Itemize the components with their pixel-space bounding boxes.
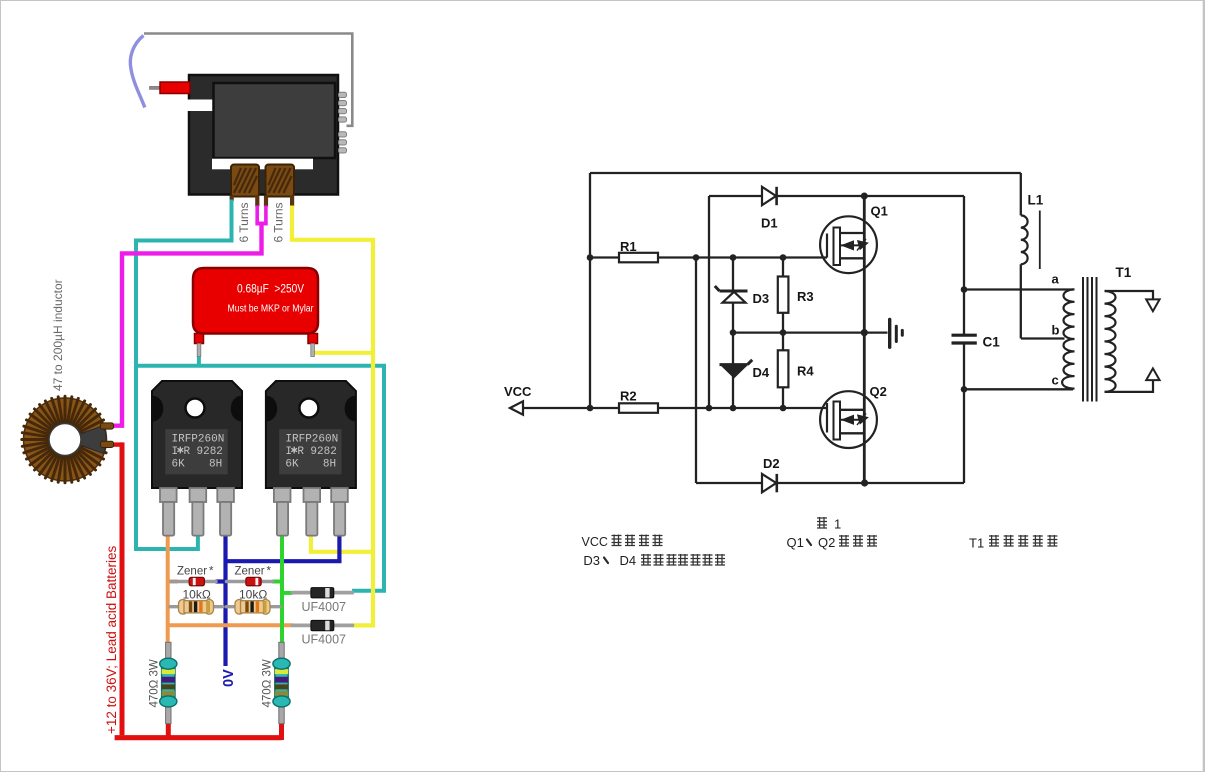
label c xyxy=(1052,373,1059,388)
resistor R3 xyxy=(778,277,789,313)
svg-text:Q1: Q1 xyxy=(871,204,888,219)
svg-text:Zener*: Zener* xyxy=(177,566,214,578)
wire teal net (coil1 - cap - Q1 drain - UF4007) xyxy=(136,200,384,591)
primary coil winding 1 (6 turns) xyxy=(230,165,260,207)
svg-text:VCC: VCC xyxy=(582,535,608,549)
svg-text:Q2: Q2 xyxy=(818,535,835,550)
diode D1 xyxy=(762,187,777,205)
label R4 xyxy=(797,364,814,379)
svg-text:L1: L1 xyxy=(1028,193,1044,208)
output arrow bottom xyxy=(1146,368,1159,380)
MOSFET symbol Q1 xyxy=(820,216,877,273)
svg-text:Q2: Q2 xyxy=(870,384,887,399)
label 10kOhm (right) xyxy=(239,588,267,602)
svg-text:8H: 8H xyxy=(209,459,222,471)
svg-text:IRFP260N: IRFP260N xyxy=(172,434,225,446)
label R2 xyxy=(620,389,637,404)
label 470R 3W (left) xyxy=(149,659,161,707)
resistor 10k (left) xyxy=(170,600,223,615)
svg-text:470Ω 3W: 470Ω 3W xyxy=(262,659,274,707)
label UF4007 (upper) xyxy=(302,600,347,614)
toroid inductor xyxy=(22,396,114,482)
svg-text:6K: 6K xyxy=(285,459,299,471)
svg-text:I: I xyxy=(285,446,292,458)
svg-text:R2: R2 xyxy=(620,389,637,404)
caption D3 D4 gate protection zeners xyxy=(583,553,725,568)
label Zener * (right) xyxy=(235,566,272,578)
label Q2 xyxy=(870,384,887,399)
svg-text:c: c xyxy=(1052,373,1059,388)
label 6 Turns (left) xyxy=(237,202,251,242)
output arrow top xyxy=(1146,299,1159,311)
flyback transformer core xyxy=(162,75,338,381)
caption figure 1 xyxy=(817,517,841,532)
wire green net (Q2 gate) xyxy=(272,534,293,643)
svg-text:D4: D4 xyxy=(620,553,637,568)
wire yellow net (coil2 - cap - Q2 drain - UF4007) xyxy=(292,206,373,626)
svg-text:R: R xyxy=(184,446,191,458)
MOSFET symbol Q2 xyxy=(820,391,877,448)
svg-text:47 to 200µH inductor: 47 to 200µH inductor xyxy=(51,279,65,391)
svg-text:1: 1 xyxy=(834,517,841,532)
svg-text:R3: R3 xyxy=(797,289,814,304)
label D4 xyxy=(753,365,770,380)
svg-text:0.68µF >250V: 0.68µF >250V xyxy=(237,282,305,296)
svg-text:10kΩ: 10kΩ xyxy=(183,588,211,602)
svg-text:T1: T1 xyxy=(969,536,984,551)
svg-text:6 Turns: 6 Turns xyxy=(272,202,286,242)
flyback red HV lead xyxy=(150,82,191,94)
label 470R 3W (right) xyxy=(262,659,274,707)
label UF4007 (lower) xyxy=(302,633,347,647)
svg-text:UF4007: UF4007 xyxy=(302,633,347,647)
svg-text:Q1: Q1 xyxy=(787,535,804,550)
schematic wires xyxy=(522,173,1073,483)
drain-source verticals Q1 Q2 xyxy=(863,196,866,483)
label C1 xyxy=(983,335,1001,350)
svg-text:I: I xyxy=(172,446,179,458)
primary coil winding 2 (6 turns) xyxy=(264,165,294,207)
resistor R2 xyxy=(619,403,658,413)
zener D4 xyxy=(720,360,753,378)
label VCC xyxy=(504,384,532,399)
svg-text:R4: R4 xyxy=(797,364,814,379)
label b xyxy=(1052,323,1060,338)
capacitor C1 xyxy=(952,335,977,343)
label 6 Turns (right) xyxy=(272,202,286,242)
diode UF4007 (upper) xyxy=(293,588,353,598)
caption T1 isolation transformer xyxy=(969,535,1057,551)
svg-text:R1: R1 xyxy=(620,239,637,254)
svg-text:UF4007: UF4007 xyxy=(302,600,347,614)
label 0V xyxy=(221,669,237,687)
capacitor 0.68uF MKP xyxy=(193,268,318,357)
svg-text:T1: T1 xyxy=(1116,265,1132,280)
svg-text:0V: 0V xyxy=(221,669,237,687)
VCC arrow xyxy=(510,401,523,414)
label R3 xyxy=(797,289,814,304)
label Zener * (left) xyxy=(177,566,214,578)
wire purple HV return of flyback xyxy=(130,36,144,108)
label 47 to 200uH inductor xyxy=(51,279,65,391)
ground symbol xyxy=(890,320,903,348)
svg-text:9282: 9282 xyxy=(310,446,336,458)
inductor L1 xyxy=(1021,211,1040,270)
resistor 10k (right) xyxy=(227,600,281,615)
label 10kOhm (left) xyxy=(183,588,211,602)
diode UF4007 (lower) xyxy=(293,620,353,630)
MOSFET pictorial M1 IRFP260N xyxy=(152,381,242,536)
transformer T1 xyxy=(1062,277,1153,402)
label a xyxy=(1052,272,1060,287)
svg-text:a: a xyxy=(1052,272,1060,287)
svg-text:6K: 6K xyxy=(172,459,186,471)
svg-text:+12 to 36V; Lead acid Batterie: +12 to 36V; Lead acid Batteries xyxy=(104,545,119,734)
svg-text:b: b xyxy=(1052,323,1060,338)
svg-text:470Ω 3W: 470Ω 3W xyxy=(149,659,161,707)
label D3 xyxy=(753,291,770,306)
svg-text:8H: 8H xyxy=(323,459,336,471)
label L1 xyxy=(1028,193,1044,208)
svg-text:D2: D2 xyxy=(763,456,780,471)
wire blue 0V net (sources) xyxy=(216,534,340,666)
wire magenta net (coils center tap - toroid) xyxy=(111,206,268,426)
label R1 xyxy=(620,239,637,254)
diode D2 xyxy=(762,474,777,492)
svg-text:6 Turns: 6 Turns xyxy=(237,202,251,242)
zener D3 xyxy=(715,286,748,303)
svg-text:Zener*: Zener* xyxy=(235,566,272,578)
wire gray loop from flyback top to pins xyxy=(144,34,352,126)
svg-text:10kΩ: 10kΩ xyxy=(239,588,267,602)
resistor 470R 3W (right) xyxy=(273,642,290,723)
zener diode 2 xyxy=(227,577,273,585)
label +12 to 36V; Lead acid Batteries xyxy=(104,545,119,734)
svg-text:VCC: VCC xyxy=(504,384,532,399)
svg-text:C1: C1 xyxy=(983,335,1001,350)
caption VCC input power xyxy=(582,535,663,550)
junction dots xyxy=(587,193,968,487)
label D2 xyxy=(763,456,780,471)
resistor 470R 3W (left) xyxy=(160,642,177,723)
resistor R1 xyxy=(619,253,658,262)
label T1 xyxy=(1116,265,1132,280)
caption Q1 Q2 switching tubes xyxy=(787,535,878,550)
MOSFET pictorial M2 IRFP260N xyxy=(266,381,356,536)
svg-text:D4: D4 xyxy=(753,365,770,380)
svg-text:D3: D3 xyxy=(753,291,770,306)
svg-text:Must be MKP or Mylar: Must be MKP or Mylar xyxy=(228,303,314,315)
svg-text:IRFP260N: IRFP260N xyxy=(285,434,338,446)
svg-text:D3: D3 xyxy=(583,553,600,568)
wire orange net (Q1 gate) xyxy=(168,534,293,643)
svg-text:9282: 9282 xyxy=(197,446,223,458)
zener diode 1 xyxy=(171,577,216,585)
flyback pins xyxy=(339,92,347,153)
resistor R4 xyxy=(778,350,789,387)
wire red +12V net xyxy=(111,442,282,740)
svg-text:R: R xyxy=(297,446,304,458)
svg-text:D1: D1 xyxy=(761,216,778,231)
label Q1 xyxy=(871,204,888,219)
label D1 xyxy=(761,216,778,231)
